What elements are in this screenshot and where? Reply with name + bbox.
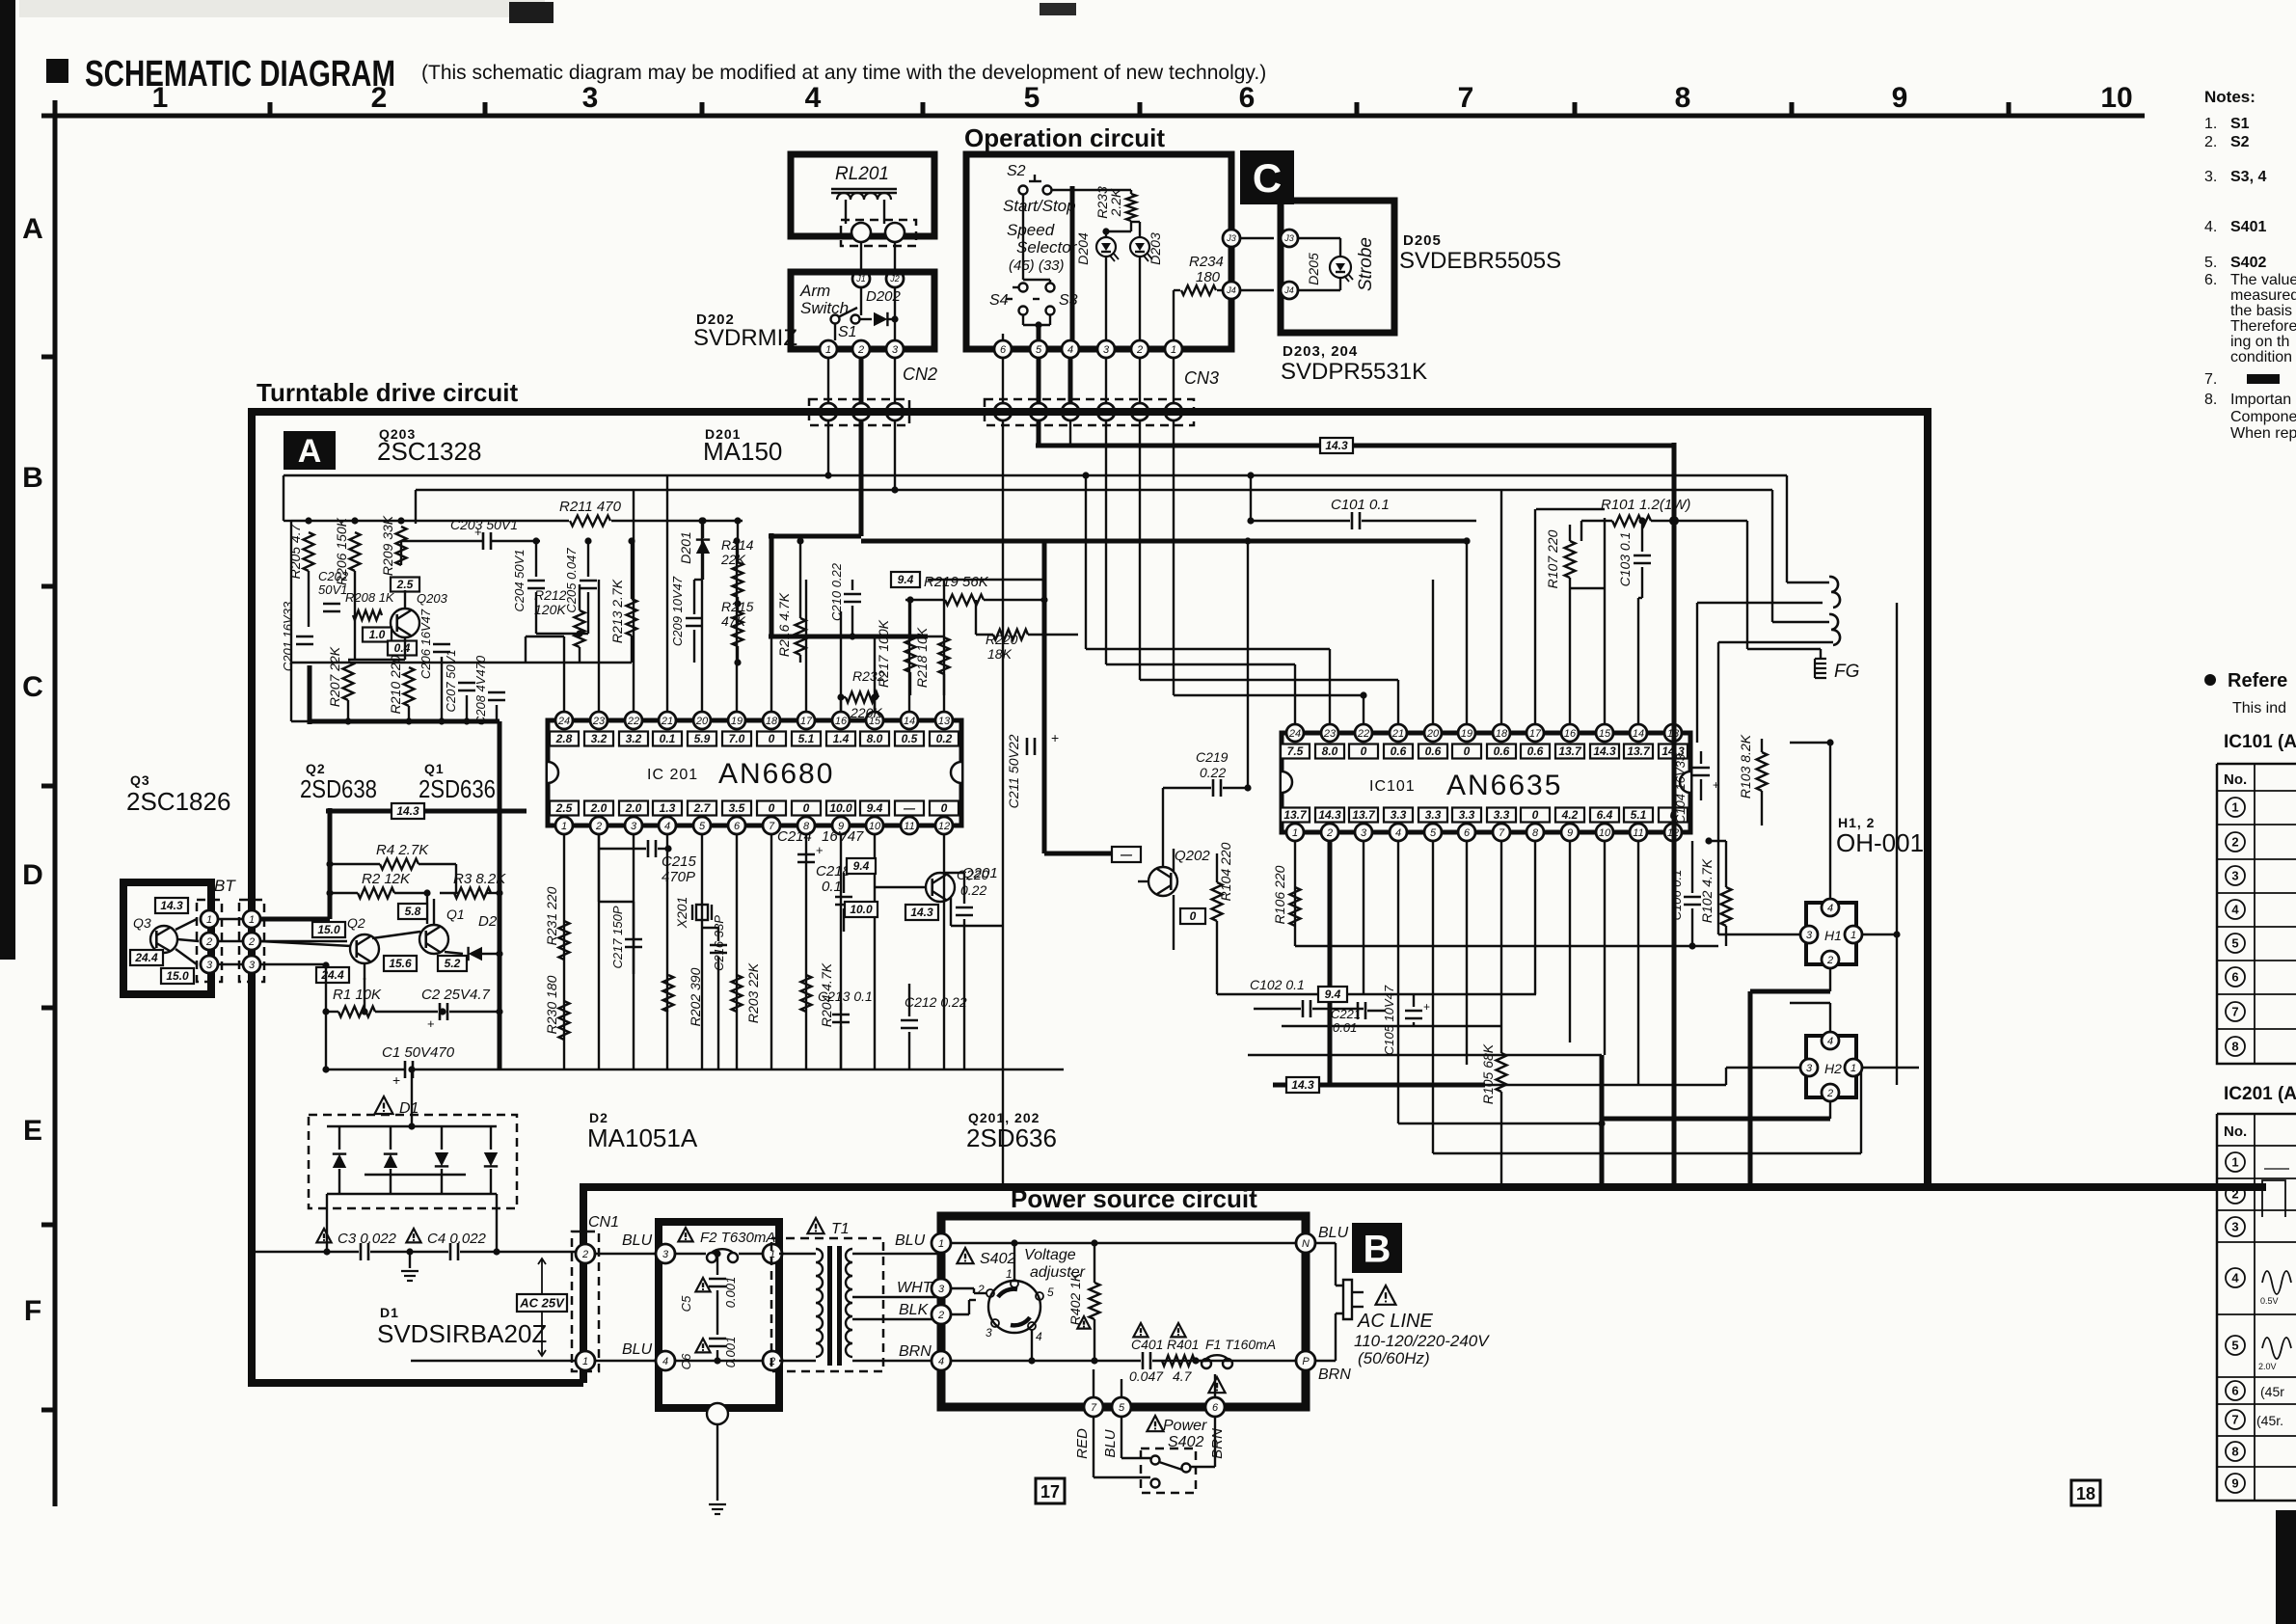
- pin CN2 2: [852, 403, 870, 420]
- wire R215 bottom: [737, 646, 739, 663]
- wire C1 to bridge: [411, 1069, 413, 1126]
- IC101 pin 18 value: [1487, 744, 1516, 759]
- svg-text:SCHEMATIC DIAGRAM: SCHEMATIC DIAGRAM: [85, 54, 395, 95]
- wire cluster verticals: [308, 571, 310, 627]
- switch S1 lever: [838, 308, 857, 317]
- capacitor C210: [844, 593, 861, 596]
- pin power N: [1296, 1233, 1315, 1253]
- svg-text:2.7: 2.7: [693, 801, 712, 815]
- capacitor C218: [835, 896, 852, 899]
- svg-text:C211 50V22: C211 50V22: [1006, 734, 1021, 808]
- svg-text:8.0: 8.0: [1322, 744, 1338, 758]
- wire bus y493: [284, 474, 1787, 476]
- wire arm pin2 drop thick: [859, 358, 864, 403]
- resistor R3: [454, 888, 491, 899]
- wire R103 stub: [1761, 739, 1763, 752]
- switch S4 contacts: [1019, 284, 1028, 292]
- wire T1 out wht: [852, 1296, 941, 1298]
- svg-text:C217 150P: C217 150P: [610, 906, 625, 968]
- op box pin 3: [1097, 340, 1115, 358]
- wire mesh h981: [1295, 945, 1718, 947]
- transistor Q2: [350, 934, 379, 963]
- wire IC201 pin24 up: [563, 636, 565, 712]
- junction IC101 pin19: [1463, 537, 1470, 544]
- wire IC201 pin6 down: [736, 835, 738, 1069]
- svg-text:3.: 3.: [2204, 169, 2217, 185]
- IC101 pin 6: [1458, 824, 1475, 841]
- svg-text:2.0: 2.0: [625, 801, 642, 815]
- wire C215 line: [599, 848, 646, 850]
- wire T1 out brn: [852, 1360, 941, 1362]
- svg-text:18: 18: [766, 716, 778, 727]
- IC201 pin 13 value: [930, 732, 959, 746]
- wire IC201 pin18 up: [770, 536, 772, 712]
- IC101 body: [1282, 733, 1690, 832]
- pin power 3: [932, 1279, 951, 1298]
- svg-text:C212 0.22: C212 0.22: [905, 994, 967, 1010]
- H2 connector box: [1806, 1036, 1856, 1097]
- wire bus y508: [416, 489, 1772, 491]
- relay RL201 coil: [837, 193, 891, 200]
- svg-text:C204 50V1: C204 50V1: [512, 549, 527, 611]
- svg-text:BRN: BRN: [899, 1343, 932, 1360]
- IC201 pin 2: [590, 817, 608, 834]
- svg-text:This ind: This ind: [2232, 700, 2286, 717]
- transistor Q3: [150, 926, 177, 953]
- wire y601 bus: [771, 579, 904, 581]
- svg-text:3.2: 3.2: [591, 732, 608, 745]
- svg-text:5: 5: [1024, 82, 1040, 114]
- IC201 pin 24: [555, 712, 573, 729]
- wire IC101 pin1 down: [1294, 841, 1296, 946]
- wire IC101 pin24 up: [1294, 664, 1296, 724]
- wire mesh v1147: [1105, 420, 1107, 664]
- wire IC101 pin7 down: [1500, 841, 1502, 1026]
- IC101 pin 21: [1390, 724, 1407, 742]
- wire strobe top: [1298, 237, 1340, 239]
- svg-text:2SC1328: 2SC1328: [377, 437, 481, 466]
- svg-text:4: 4: [805, 82, 822, 114]
- svg-text:OH-001: OH-001: [1836, 828, 1924, 857]
- wire IC201 pin2 down: [598, 835, 600, 1069]
- wire Q3 pin3 into box: [260, 963, 328, 965]
- svg-text:C208 4V470: C208 4V470: [473, 655, 488, 725]
- IC101 pin 5: [1424, 824, 1442, 841]
- motor coil 2: [1829, 614, 1840, 645]
- resistor R211: [570, 516, 610, 527]
- IC201 pin 19: [728, 712, 745, 729]
- IC201 pin 24 value: [550, 732, 579, 746]
- wire R4 line: [330, 863, 380, 865]
- svg-text:R3 8.2K: R3 8.2K: [453, 871, 506, 887]
- svg-text:AC 25V: AC 25V: [519, 1295, 565, 1310]
- IC201 pin 6 value: [722, 801, 751, 816]
- resistor R1: [338, 1007, 375, 1017]
- wire N to plug: [1315, 1242, 1336, 1244]
- IC201 table row 7 number: [2226, 1410, 2245, 1429]
- wire pin1 drop: [1173, 290, 1175, 340]
- capacitor C102: [1302, 1000, 1305, 1017]
- arm switch box: [791, 272, 934, 349]
- svg-text:J3: J3: [1226, 233, 1236, 243]
- svg-text:WHT: WHT: [897, 1280, 933, 1296]
- capacitor C214: [797, 853, 815, 856]
- svg-text:7: 7: [1499, 827, 1505, 839]
- wire pins1617 stub: [840, 697, 842, 712]
- capacitor C219: [1212, 779, 1215, 797]
- svg-text:0: 0: [1361, 744, 1367, 758]
- wire h687 mid: [348, 662, 632, 663]
- svg-text:BLU: BLU: [895, 1232, 926, 1249]
- IC101 pin 17: [1526, 724, 1544, 742]
- capacitor C203: [482, 532, 485, 550]
- wire CN2 pin1 below: [827, 420, 829, 475]
- transistor Q201: [926, 873, 955, 902]
- svg-text:+: +: [427, 1016, 435, 1031]
- pin J3 strobe: [1281, 230, 1298, 247]
- pin CN1 1: [576, 1351, 595, 1370]
- rotary contact 1: [1011, 1280, 1018, 1287]
- zener D2: [469, 947, 482, 961]
- svg-text:C2 25V4.7: C2 25V4.7: [421, 987, 491, 1003]
- wire IC201 pin21 up: [666, 475, 668, 712]
- reference bullet: [2204, 674, 2216, 686]
- IC101 pin 7: [1493, 824, 1510, 841]
- junction pin20: [698, 517, 705, 524]
- capacitor C3 label: [316, 1229, 331, 1242]
- wire cluster top rail: [291, 520, 487, 522]
- IC101 pin 2 value: [1315, 808, 1344, 823]
- svg-text:1: 1: [825, 344, 831, 356]
- IC201 pin 14: [901, 712, 918, 729]
- svg-text:0.001: 0.001: [723, 1277, 738, 1309]
- wire C203 line: [401, 540, 482, 542]
- svg-text:the basis: the basis: [2230, 303, 2292, 319]
- wire CN2 pin3 below: [894, 420, 896, 490]
- svg-text:17: 17: [800, 716, 813, 727]
- svg-text:4: 4: [664, 821, 670, 832]
- A box right edge: [1924, 408, 1931, 1187]
- capacitor C205: [580, 580, 597, 582]
- svg-text:5: 5: [2231, 936, 2238, 951]
- rotary contact 4: [1028, 1322, 1036, 1330]
- wire IC101 pin17 up: [1534, 509, 1536, 724]
- svg-text:0.001: 0.001: [723, 1337, 738, 1368]
- svg-text:2: 2: [248, 936, 255, 948]
- wire D204 down: [1105, 257, 1107, 340]
- svg-text:P: P: [1302, 1356, 1310, 1367]
- warn AC: [1376, 1286, 1396, 1305]
- resistor R102: [1721, 887, 1732, 926]
- svg-text:+: +: [1051, 730, 1059, 745]
- capacitor C3: [360, 1243, 363, 1260]
- wire T1 out blu: [852, 1253, 941, 1255]
- wire thick mid vertical C211: [1042, 541, 1047, 853]
- capacitor C206: [433, 643, 450, 646]
- svg-text:SVDEBR5505S: SVDEBR5505S: [1399, 248, 1561, 274]
- svg-text:IC 201: IC 201: [647, 767, 698, 783]
- svg-text:R105 68K: R105 68K: [1480, 1043, 1496, 1104]
- IC201 pin 23: [590, 712, 608, 729]
- pin J2: [886, 270, 904, 287]
- wire IC101 pin3 down: [1363, 841, 1364, 994]
- switch S1 contacts: [831, 315, 840, 324]
- IC101 pin 12: [1664, 824, 1682, 841]
- svg-text:R106 220: R106 220: [1272, 865, 1287, 924]
- capacitor C207: [458, 682, 475, 685]
- svg-text:Speed: Speed: [1007, 221, 1055, 239]
- svg-text:3.3: 3.3: [1494, 808, 1510, 822]
- svg-text:0.01: 0.01: [1333, 1020, 1357, 1035]
- A box bottom-left edge: [248, 1379, 583, 1387]
- IC101 pin 20 value: [1418, 744, 1447, 759]
- svg-text:18: 18: [2076, 1484, 2095, 1503]
- svg-text:1: 1: [2231, 1155, 2238, 1170]
- IC201 pin 12: [935, 817, 953, 834]
- svg-text:RL201: RL201: [835, 164, 889, 184]
- pin arm 2: [852, 340, 870, 358]
- vbox 14.3 on bus: [1320, 438, 1353, 453]
- wire pin3 to rotary: [951, 1287, 974, 1289]
- svg-text:R107 220: R107 220: [1545, 529, 1560, 588]
- IC201 pin 6: [728, 817, 745, 834]
- wire bridge down right: [496, 1194, 498, 1252]
- IC201 notch left: [548, 762, 558, 783]
- svg-text:3: 3: [631, 821, 637, 832]
- svg-text:2.0V: 2.0V: [2258, 1362, 2277, 1371]
- wire H2 pin1 right: [1862, 1067, 1919, 1069]
- IC201 pin 9 value: [826, 801, 855, 816]
- IC101 pin 16 value: [1555, 744, 1584, 759]
- wire J3 link: [1240, 237, 1274, 239]
- switch S402 contact a: [1151, 1456, 1160, 1465]
- svg-text:5.1: 5.1: [1631, 808, 1647, 822]
- ground c3c4: [409, 1252, 411, 1268]
- ruler tick: [1573, 102, 1578, 116]
- svg-text:S2: S2: [1007, 163, 1026, 179]
- resistor R209: [396, 527, 407, 565]
- wire CN1 to F2 top: [595, 1253, 659, 1255]
- wire F1: [1195, 1360, 1206, 1362]
- pin F2 1: [763, 1244, 782, 1263]
- svg-text:D1: D1: [380, 1305, 399, 1320]
- svg-text:4: 4: [662, 1356, 668, 1367]
- vbox 1.0: [363, 628, 392, 642]
- svg-text:3: 3: [2231, 1220, 2238, 1234]
- svg-text:7: 7: [1091, 1402, 1097, 1414]
- svg-text:(45) (33): (45) (33): [1009, 257, 1065, 274]
- title bullet: [46, 59, 68, 83]
- crystal X201: [696, 905, 708, 920]
- label AC25V box: [517, 1294, 567, 1312]
- svg-text:4.7: 4.7: [1173, 1368, 1193, 1384]
- svg-text:24.4: 24.4: [134, 951, 158, 964]
- svg-text:Voltage: Voltage: [1024, 1247, 1076, 1263]
- wire H1 pin2 down: [1829, 968, 1831, 991]
- IC101 table row 5 number: [2226, 934, 2245, 953]
- rail tick: [41, 1006, 55, 1011]
- IC201 pin 7 value: [757, 801, 786, 816]
- wire coil1 return: [1697, 602, 1823, 604]
- IC201 table row 1 number: [2226, 1152, 2245, 1172]
- wire thick IC101 pin2 down: [1328, 841, 1333, 1085]
- capacitor C4 label: [406, 1229, 420, 1242]
- wire IC201 pin7 down: [770, 835, 772, 1069]
- IC101 table row line: [2217, 1028, 2296, 1030]
- wire IC201 pin23 up: [598, 580, 600, 712]
- IC101 pin 18: [1493, 724, 1510, 742]
- svg-text:J1: J1: [855, 274, 866, 284]
- wire F2 cap branch: [716, 1254, 718, 1275]
- wire Q201 base: [875, 886, 926, 888]
- vbox 10.0 q201: [845, 902, 878, 917]
- IC101 pin 23 value: [1315, 744, 1344, 759]
- svg-text:5.2: 5.2: [445, 957, 461, 970]
- resistor R401: [1162, 1356, 1195, 1367]
- IC201 pin 2 value: [584, 801, 613, 816]
- IC101 pin 8 value: [1521, 808, 1550, 823]
- relay contact dashed box: [841, 220, 916, 246]
- wire D204 top: [1105, 231, 1107, 237]
- svg-text:R234: R234: [1189, 254, 1224, 270]
- IC201 pin 9: [832, 817, 850, 834]
- resistor R207: [343, 662, 354, 700]
- wire C220 stub: [963, 873, 965, 904]
- wire thick to Q3 down: [328, 808, 333, 919]
- svg-text:3: 3: [938, 1284, 945, 1295]
- wire S2 left drop: [1022, 195, 1024, 280]
- vbox 15.0 q3: [161, 968, 194, 984]
- wire IC201 pin1 down: [563, 835, 565, 1069]
- bridge diode 4: [484, 1152, 498, 1166]
- resistor R213: [627, 599, 637, 636]
- wire mesh h1165: [1398, 1123, 1806, 1124]
- svg-text:6: 6: [1464, 827, 1471, 839]
- IC101 table row 7 number: [2226, 1002, 2245, 1021]
- ruler tick: [700, 102, 705, 116]
- wire IC101 pin15 x1664: [1604, 509, 1606, 518]
- IC101 pin 23: [1321, 724, 1338, 742]
- wire C101 line: [1251, 520, 1350, 522]
- ruler tick: [268, 102, 273, 116]
- svg-text:Start/Stop: Start/Stop: [1003, 197, 1076, 215]
- IC201 pin 17: [797, 712, 815, 729]
- IC101 pin 7 value: [1487, 808, 1516, 823]
- IC101 table row line: [2217, 993, 2296, 995]
- wire IC201 pin16 up: [840, 611, 842, 712]
- svg-text:D203, 204: D203, 204: [1283, 343, 1358, 360]
- wire relay to J2: [894, 242, 896, 271]
- pin power 4: [932, 1351, 951, 1370]
- IC201 pin 8 value: [792, 801, 821, 816]
- wire mesh h561 dot: [1463, 537, 1470, 544]
- svg-text:50V1: 50V1: [318, 582, 347, 597]
- wire IC201 pin4 down: [666, 835, 668, 1069]
- IC101 pin 3: [1355, 824, 1372, 841]
- svg-text:2: 2: [1136, 344, 1143, 356]
- svg-text:C102 0.1: C102 0.1: [1250, 977, 1305, 992]
- IC201 pin 3: [625, 817, 642, 834]
- svg-text:R209 33K: R209 33K: [380, 515, 395, 576]
- svg-text:7: 7: [2231, 1005, 2238, 1019]
- svg-text:S1: S1: [2230, 116, 2250, 132]
- scanner blob top: [509, 2, 554, 23]
- svg-text:2.5: 2.5: [555, 801, 573, 815]
- capacitor C216: [710, 944, 727, 947]
- svg-text:S4: S4: [989, 292, 1009, 309]
- svg-text:R102 4.7K: R102 4.7K: [1699, 858, 1715, 923]
- svg-text:When rep: When rep: [2230, 425, 2296, 442]
- scanner edge bar bottom right: [2276, 1510, 2296, 1624]
- pin CN3 1: [1165, 403, 1182, 420]
- H1 pin 3: [1800, 926, 1818, 943]
- wire bus y493 corner: [1786, 475, 1788, 582]
- wire R212 drop: [579, 584, 581, 610]
- wire mesh h1064: [1282, 1025, 1501, 1027]
- capacitor C105: [1405, 1010, 1422, 1013]
- wire C210: [851, 580, 853, 590]
- svg-text:0.5: 0.5: [902, 732, 918, 745]
- connector CN3 dashed: [985, 399, 1194, 425]
- IC201 pin 16: [832, 712, 850, 729]
- wire thick H2 bottom horizontal: [1602, 1117, 1830, 1122]
- svg-text:C1 50V470: C1 50V470: [382, 1044, 455, 1061]
- IC101 pin 22: [1355, 724, 1372, 742]
- IC201 table waveform pulse: [2262, 1180, 2285, 1217]
- wire IC101 pin12 down: [1672, 841, 1674, 1123]
- wire C219 line: [1163, 787, 1211, 789]
- H2 pin 4: [1822, 1032, 1839, 1049]
- wire J4 link: [1240, 289, 1274, 291]
- svg-text:1: 1: [561, 821, 567, 832]
- wire thick H1 bottom horizontal: [1750, 989, 1830, 994]
- svg-text:C205 0.047: C205 0.047: [564, 548, 579, 613]
- svg-text:6: 6: [2231, 1384, 2238, 1398]
- wire C103 stub: [1641, 521, 1643, 552]
- svg-text:14: 14: [1633, 728, 1644, 740]
- svg-text:1.4: 1.4: [833, 732, 850, 745]
- svg-text:0.4: 0.4: [394, 641, 411, 655]
- junction IC101 pin22 y721: [1360, 691, 1366, 698]
- svg-text:D205: D205: [1306, 253, 1321, 285]
- resistor R104: [1212, 882, 1223, 921]
- transistor Q203: [391, 609, 419, 637]
- IC101 table row line: [2217, 960, 2296, 961]
- svg-text:3: 3: [1103, 344, 1110, 356]
- svg-text:C5: C5: [679, 1295, 693, 1312]
- svg-text:D204: D204: [1075, 232, 1091, 265]
- svg-text:2.2K: 2.2K: [1108, 188, 1123, 217]
- IC201 table row 2 number: [2226, 1184, 2245, 1204]
- svg-text:2: 2: [1826, 1088, 1833, 1099]
- IC201 pin 5: [693, 817, 711, 834]
- capacitor C202: [323, 603, 340, 606]
- capacitor C213: [832, 1014, 850, 1016]
- svg-text:—: —: [1120, 848, 1133, 861]
- wire R211 line: [487, 520, 569, 522]
- wire cluster h684: [348, 659, 405, 661]
- svg-text:4: 4: [1395, 827, 1401, 839]
- wire R214 R215 join: [737, 597, 739, 611]
- wire R105 stub: [1500, 1026, 1502, 1053]
- svg-text:+: +: [1713, 778, 1719, 792]
- svg-text:7.5: 7.5: [1287, 744, 1304, 758]
- svg-text:11: 11: [1633, 827, 1643, 839]
- svg-text:S3, 4: S3, 4: [2230, 169, 2266, 185]
- IC101 table row line: [2217, 858, 2296, 860]
- wire C218 stub: [843, 873, 845, 893]
- warn F1: [1208, 1377, 1225, 1393]
